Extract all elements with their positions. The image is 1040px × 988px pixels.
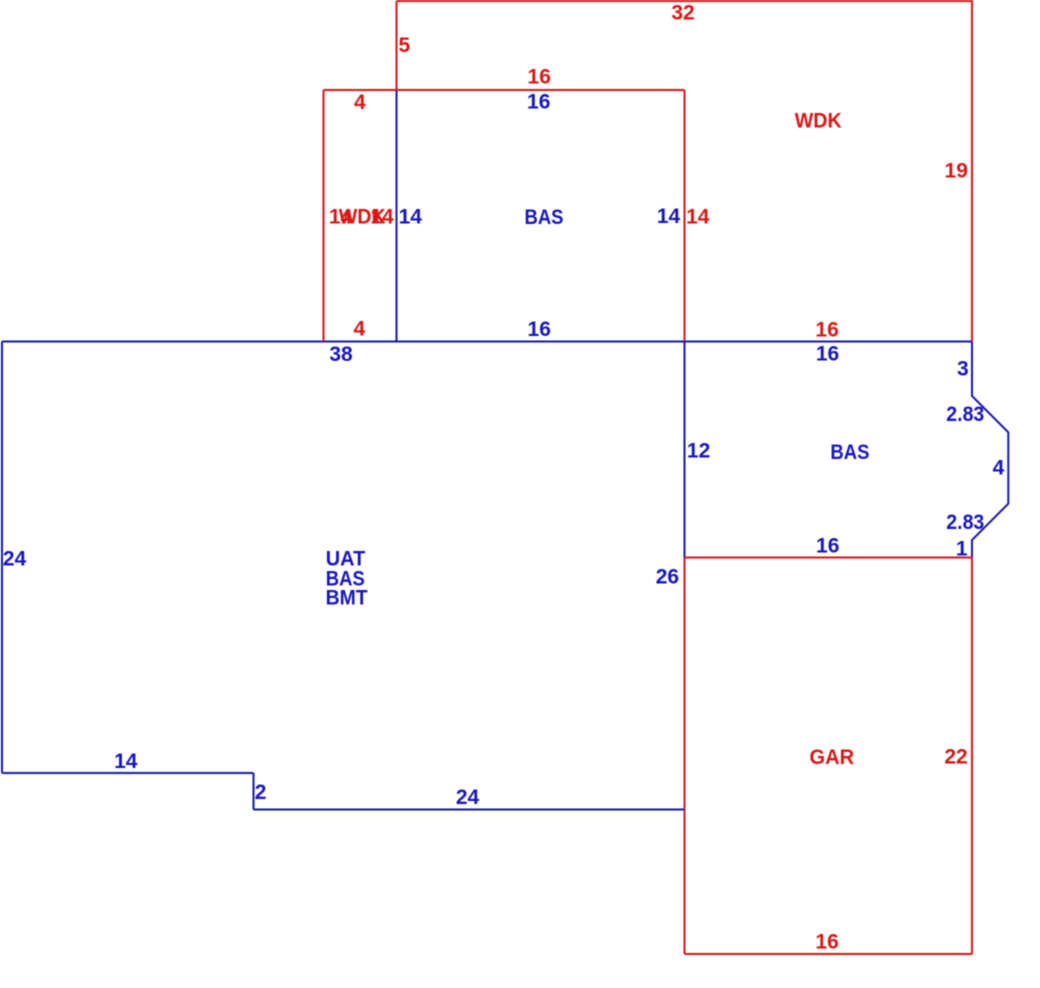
svg-text:2.83: 2.83	[946, 511, 984, 534]
svg-text:BAS: BAS	[830, 441, 869, 464]
svg-text:12: 12	[687, 440, 710, 463]
wire: blue UAT left wall x=2 (24 ft)	[1, 342, 3, 774]
svg-text:19: 19	[945, 160, 968, 183]
wire: blue right BAS top wall y=341	[685, 341, 973, 343]
svg-text:1: 1	[956, 538, 968, 561]
wire: blue main horizontal wall y=341	[2, 341, 685, 343]
wire: red small WDK left wall x=324	[323, 90, 325, 342]
svg-text:14: 14	[370, 205, 394, 228]
svg-text:2.83: 2.83	[946, 403, 984, 426]
svg-text:16: 16	[816, 535, 839, 558]
svg-text:4: 4	[353, 318, 365, 341]
wire: blue right BAS east wall with bay (3, 2.83, 4, 2.83, 1)	[972, 342, 1008, 558]
wire: blue UAT right wall x=684 (26 ft, upper part)	[684, 342, 686, 558]
svg-text:24: 24	[456, 786, 480, 809]
wire: red WDK deck top wall y=1	[397, 0, 973, 2]
svg-text:BAS: BAS	[525, 206, 564, 229]
wire: red GAR top wall y=557	[685, 557, 973, 559]
svg-text:14: 14	[686, 205, 710, 228]
wire: red GAR right wall x=972	[971, 558, 973, 955]
svg-text:16: 16	[527, 91, 550, 114]
svg-text:22: 22	[944, 746, 967, 769]
svg-text:4: 4	[354, 91, 366, 114]
svg-text:5: 5	[398, 34, 410, 57]
svg-text:14: 14	[657, 205, 681, 228]
svg-text:16: 16	[528, 318, 551, 341]
svg-text:16: 16	[528, 65, 551, 88]
wire: red GAR bottom wall y=954	[685, 953, 973, 955]
svg-text:GAR: GAR	[810, 746, 855, 769]
svg-text:38: 38	[329, 343, 353, 366]
svg-text:BMT: BMT	[326, 587, 368, 610]
svg-text:26: 26	[656, 566, 679, 589]
wire: red GAR left wall x=685	[684, 558, 686, 955]
svg-text:32: 32	[671, 2, 694, 25]
wire: red WDK deck left wall upper segment (5 ft)	[396, 1, 398, 90]
svg-text:14: 14	[399, 205, 423, 228]
svg-text:16: 16	[816, 343, 839, 366]
svg-text:24: 24	[3, 547, 27, 570]
wire: red inner vertical wall x=685 (14 ft)	[684, 90, 686, 342]
wire: blue UAT bottom wall y=809 (24 ft)	[254, 809, 685, 811]
svg-text:3: 3	[957, 358, 969, 381]
svg-text:16: 16	[815, 318, 838, 341]
svg-text:WDK: WDK	[795, 109, 842, 132]
svg-text:14: 14	[114, 750, 138, 773]
wire: blue UAT step wall x=254 (2 ft)	[253, 773, 255, 810]
wire: blue UAT bottom wall y=773 (14 ft)	[2, 772, 254, 774]
wire: blue BAS left wall x=397	[396, 90, 398, 342]
wire: red horizontal wall y=90 across WDK and BAS	[324, 89, 685, 91]
svg-text:2: 2	[255, 781, 267, 804]
svg-text:4: 4	[993, 457, 1005, 480]
wire: red WDK deck right wall x=972	[971, 0, 973, 342]
svg-text:16: 16	[815, 931, 838, 954]
